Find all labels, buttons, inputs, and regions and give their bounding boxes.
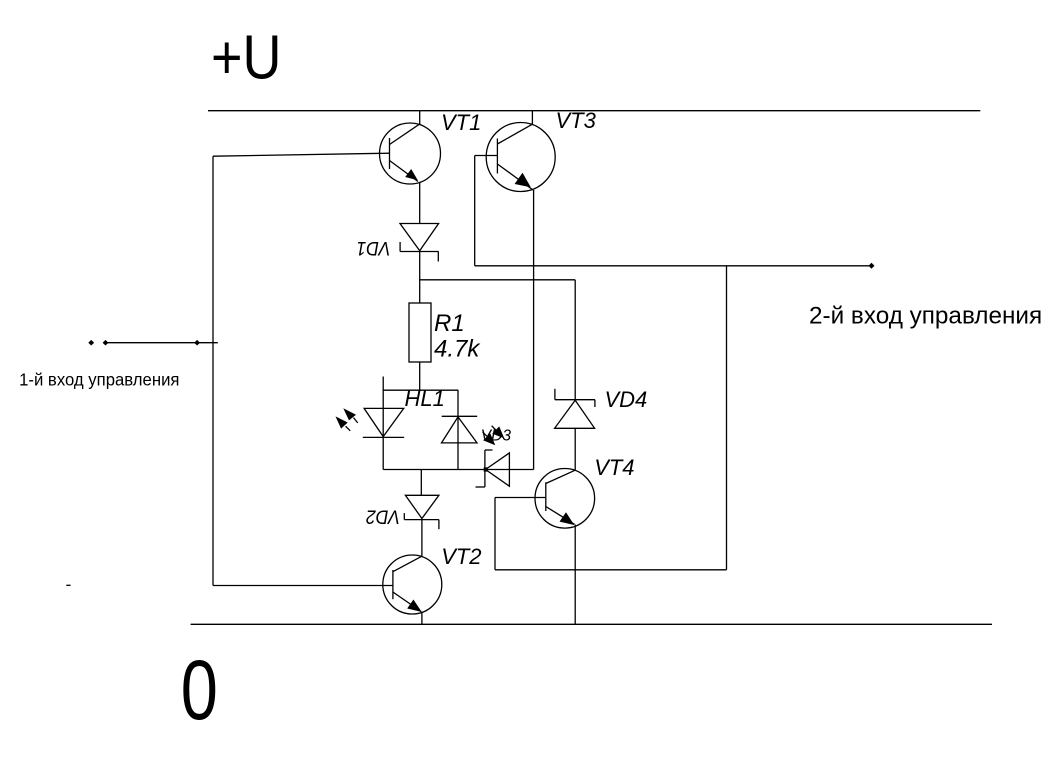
LED HL1 xyxy=(363,408,404,437)
wire: VD1 to R1 xyxy=(419,252,421,304)
diode VD4 (zener) xyxy=(555,389,595,429)
wire: HL1 vertical xyxy=(382,390,384,469)
wire: VT3 base vertical xyxy=(474,156,476,266)
svg-text:VT4: VT4 xyxy=(594,455,634,480)
wire: box bottom to VD2 xyxy=(420,470,422,496)
svg-text:VT2: VT2 xyxy=(441,544,481,569)
svg-text:VD2: VD2 xyxy=(366,506,400,528)
photodiode VD3 xyxy=(442,390,478,469)
resistor R1 xyxy=(409,303,431,362)
node: 1st control input stub xyxy=(106,342,218,344)
transistor VT3 xyxy=(486,123,555,192)
+U top power rail xyxy=(208,110,980,112)
HL1 emission arrow 2 xyxy=(336,416,351,430)
svg-text:VD4: VD4 xyxy=(605,387,648,412)
transistor VT2 xyxy=(383,555,442,614)
diode VD5 series (left pointing, zener) xyxy=(476,450,510,487)
svg-text:VT3: VT3 xyxy=(556,108,597,133)
0 bottom power rail xyxy=(191,623,992,625)
wire: VD2 to VT2 xyxy=(421,520,423,556)
wire: left bus to VT2 base xyxy=(213,585,393,587)
transistor VT1 xyxy=(380,123,441,184)
wire: VD4 to VT4 collector xyxy=(574,428,576,470)
wire: left bus vertical xyxy=(212,156,214,585)
wire: VT3 collector to rail xyxy=(531,111,533,125)
wire: HL1 box top xyxy=(383,389,459,391)
wire: R1 to HL1 box xyxy=(419,362,421,390)
svg-text:+U: +U xyxy=(211,23,281,92)
node diamond: 2nd input endpoint xyxy=(869,263,875,269)
wire: HL1 anode stub xyxy=(382,377,384,391)
diode VD2 (zener) xyxy=(404,495,439,529)
wire: VT1 base to left bus xyxy=(213,153,390,156)
stray dash mark xyxy=(66,584,70,586)
wire: VT4 loop bottom xyxy=(495,569,727,571)
HL1 emission arrow 1 xyxy=(343,408,357,423)
svg-text:1-й вход управления: 1-й вход управления xyxy=(19,370,179,389)
wire: VT1 emitter down xyxy=(419,182,421,224)
node dot A1 xyxy=(88,340,94,346)
svg-text:VD1: VD1 xyxy=(356,238,390,260)
wire: VD4 branch vertical xyxy=(574,280,576,400)
wire: VT3 base lead xyxy=(475,155,498,157)
node dot A2 xyxy=(103,340,109,346)
wire: mid horizontal to VD4 branch xyxy=(420,279,576,281)
VD3 photo arrow 1 xyxy=(492,426,505,439)
junction dot xyxy=(484,467,488,471)
wire: VT3 emitter vertical xyxy=(533,190,535,470)
node dot A3 xyxy=(194,340,200,346)
svg-text:4.7k: 4.7k xyxy=(434,335,481,362)
svg-text:R1: R1 xyxy=(434,310,465,337)
VD3 photo arrow 2 xyxy=(483,432,496,445)
wire: VT2 emitter to bottom rail xyxy=(421,612,423,624)
wire: HL1 box bottom xyxy=(383,469,533,471)
svg-text:2-й вход управления: 2-й вход управления xyxy=(809,303,1042,330)
svg-text:HL1: HL1 xyxy=(405,386,445,411)
svg-text:VT1: VT1 xyxy=(441,110,481,135)
wire: 2nd control input line xyxy=(475,265,872,267)
diode VD1 (zener) xyxy=(400,224,439,262)
wire: VT1 collector to rail xyxy=(419,111,421,124)
wire: right branch vertical xyxy=(726,266,728,570)
svg-text:0: 0 xyxy=(181,644,218,738)
wire: VT4 loop left vertical xyxy=(494,498,496,570)
transistor VT4 xyxy=(535,469,595,529)
wire: VT4 base lead xyxy=(495,497,546,499)
wire: VT4 emitter to bottom rail xyxy=(574,525,576,625)
